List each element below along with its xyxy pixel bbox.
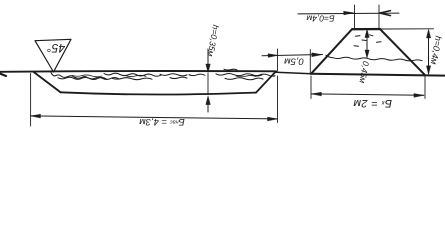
channel depth dimension upper arrow (points down at water line)	[207, 49, 209, 70]
channel right slope	[256, 71, 276, 92]
embankment height dimension at right	[380, 28, 434, 30]
top width dimension extension lines	[354, 5, 356, 29]
channel bottom	[61, 92, 257, 94]
ground / water surface line left	[0, 70, 276, 73]
channel bottom-width dimension: left extension line	[30, 74, 32, 127]
small dashes in freeboard zone	[354, 35, 381, 46]
left-edge tick	[0, 74, 6, 77]
water line left of and inside embankment	[326, 55, 422, 61]
embankment base line	[311, 74, 445, 76]
channel bottom-width dimension line	[31, 116, 278, 119]
water squiggles in channel	[51, 69, 275, 80]
bottom base-width dimension of embankment	[424, 76, 426, 99]
right extension line (shared with 0,5m dim)	[277, 49, 279, 71]
right extension of 0,5m dim / left ext of bottom dim	[309, 50, 311, 74]
embankment trapezoid	[311, 29, 425, 75]
0,5m berm dimension line with outside arrows	[262, 55, 323, 56]
channel left slope	[34, 72, 61, 92]
Diagram: hand-drawn cross-section of excavated channel (left) and embankment canal (right), scanned upside-down labels	[0, 0, 445, 136]
ground line right of channel	[276, 72, 311, 74]
45-degree slope flag triangle	[35, 39, 71, 72]
top dimension line with outside arrows	[298, 12, 399, 15]
svg-text:0,5м: 0,5м	[284, 55, 304, 66]
svg-text:Б=0,4м: Б=0,4м	[306, 13, 334, 23]
its arrowheads	[31, 114, 41, 118]
svg-text:45°: 45°	[47, 41, 65, 55]
depth dimension shaft through channel interior	[207, 74, 209, 95]
svg-text:Бк = 2м: Бк = 2м	[353, 97, 392, 109]
embankment inner height dimension (top edge to water line)	[366, 31, 368, 56]
channel depth dimension lower arrow (points up at channel bottom)	[207, 98, 209, 112]
